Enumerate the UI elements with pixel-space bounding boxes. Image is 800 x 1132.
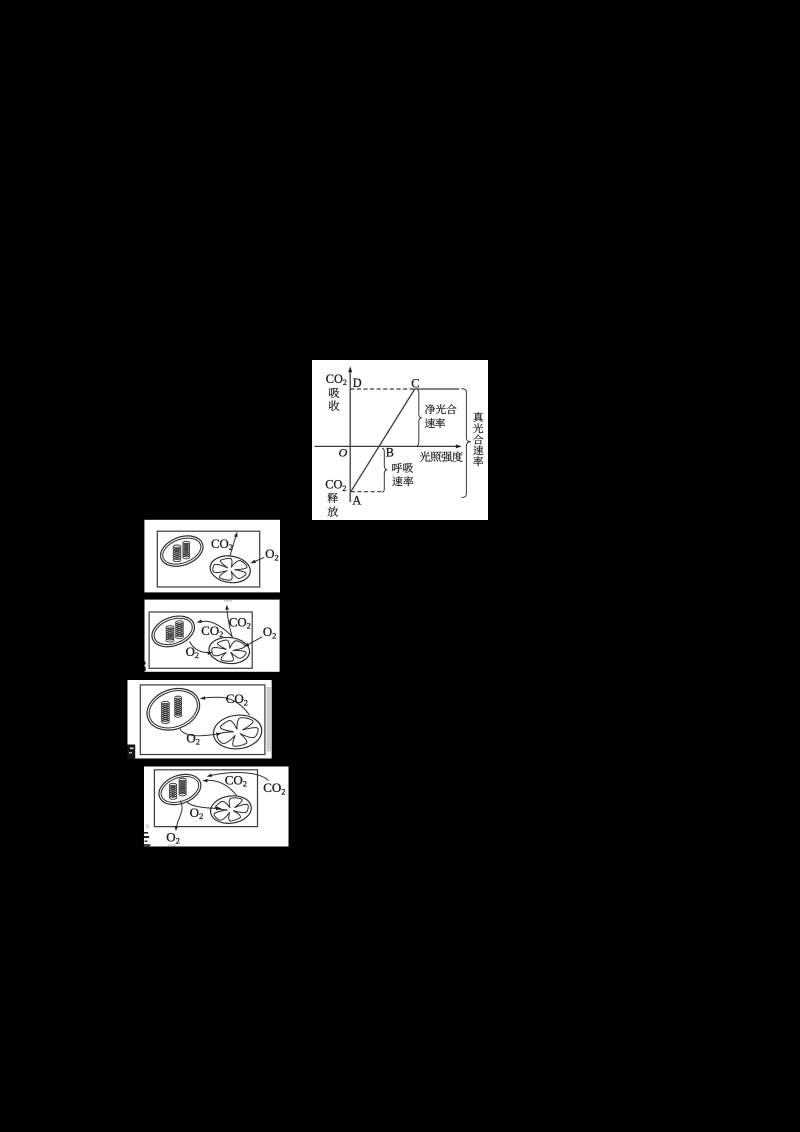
diagram1 CO2 out arrow <box>230 535 237 557</box>
brace net photosynthesis <box>417 390 422 446</box>
diagram1 cell border <box>157 531 259 587</box>
dashed line D to C <box>350 388 415 390</box>
diagram2 CO2 up-out arrow <box>227 611 233 639</box>
svg-text:O: O <box>339 446 348 460</box>
diagram2 chloroplast <box>148 611 199 653</box>
diagram2 left edge mark <box>144 662 146 665</box>
diagram2 O2 to mito arrow <box>190 642 208 653</box>
diagram4 cell border <box>154 770 257 827</box>
diagram2 panel <box>145 600 280 672</box>
diagram1 chloroplast <box>156 530 207 571</box>
diagram4 left marks <box>144 832 149 834</box>
diagram1 mitochondrion <box>208 553 252 585</box>
svg-text:A: A <box>352 494 361 508</box>
diagram3 panel <box>128 680 272 759</box>
diagram1 panel <box>144 520 280 593</box>
x-axis <box>315 445 457 447</box>
diagram1 granum right <box>183 541 190 559</box>
line A to C <box>351 389 415 492</box>
diagram4 chloroplast <box>155 769 205 810</box>
diagram4 O2 to mito arrow <box>187 802 217 809</box>
diagram4 panel <box>144 767 289 847</box>
label gross photosynthesis rate vertical <box>473 412 483 422</box>
x-axis title light intensity <box>420 451 431 461</box>
diagram2 top gray mark <box>224 600 232 602</box>
diagram4 inner CO2 curve <box>205 780 236 795</box>
diagram2 O2 in arrow <box>246 637 262 646</box>
diagram4 granum left <box>169 783 176 799</box>
svg-text:C: C <box>411 376 419 390</box>
diagram4 granum right <box>179 778 186 796</box>
y-axis arrowhead <box>348 366 352 372</box>
diagram2 mitochondrion <box>208 636 251 665</box>
plateau line C right <box>415 388 460 390</box>
diagram2 granum right <box>176 621 184 639</box>
diagram3 O2 arrow <box>180 729 219 736</box>
diagram4 O2 out-down curve <box>176 801 182 829</box>
diagram3 left black blob <box>128 745 136 760</box>
diagram3 gray band <box>267 687 271 752</box>
diagram3 CO2 arrow <box>203 697 250 715</box>
label respiration rate <box>392 463 402 473</box>
diagram4 gray patch bottom <box>168 844 176 847</box>
diagram3 granum left <box>161 701 169 723</box>
svg-text:B: B <box>386 446 394 460</box>
graph panel background <box>312 360 488 520</box>
diagram1 O2 arrow <box>253 557 264 562</box>
diagram3 granum right <box>175 696 182 717</box>
diagram4 outer CO2 curve <box>210 773 269 781</box>
label absorb chars <box>329 388 339 398</box>
diagram3 mitochondrion <box>212 713 264 751</box>
x-axis arrowhead <box>456 444 462 448</box>
diagram2 CO2 to chloroplast arrow <box>199 621 232 637</box>
diagram1 granum left <box>173 545 181 562</box>
diagram3 cell border <box>140 685 265 755</box>
diagram4 gray patch top <box>145 824 149 828</box>
diagram2 granum left <box>166 626 174 643</box>
diagram4 mitochondrion <box>209 793 253 826</box>
brace respiration rate <box>382 448 387 492</box>
brace gross photosynthesis <box>461 389 471 498</box>
svg-text:D: D <box>353 376 362 390</box>
diagram2 cell border <box>149 612 252 668</box>
diagram3 chloroplast <box>141 681 205 737</box>
y-axis <box>349 370 351 503</box>
dashed line A right <box>351 491 382 493</box>
label net photosynthesis rate <box>425 404 435 414</box>
